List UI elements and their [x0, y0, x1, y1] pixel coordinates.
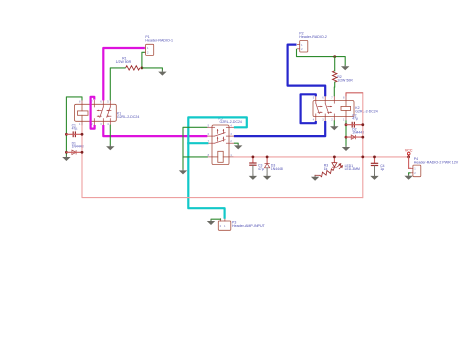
svg-text:LED-3MM: LED-3MM: [345, 167, 360, 171]
wire K3 pin4/pin7 to P3 (cyan): [188, 117, 247, 218]
wire VCC right vertical rail (red): [362, 93, 364, 198]
junction D1 right: [81, 151, 84, 154]
ground C4: [370, 174, 378, 180]
connector P4 Header-RADIO-2-PWR-12V: [411, 157, 459, 177]
led LED1 LED-3MM: [332, 157, 360, 171]
wire P4 pin2 to ground (green): [409, 173, 411, 176]
wire VCC rail horizontal (red): [234, 156, 409, 158]
wire K2 coil pin1 rail to ground (green): [345, 121, 347, 147]
junction D1 left: [65, 151, 68, 154]
svg-text:1µ: 1µ: [380, 167, 384, 171]
capacitor C3 47u: [249, 157, 264, 176]
diode D2 1N4448: [351, 127, 364, 139]
relay K2 G2RL-2-DC24: [313, 96, 378, 121]
svg-text:G2RL-2-DC24: G2RL-2-DC24: [117, 115, 139, 119]
svg-text:1/2W 50R: 1/2W 50R: [116, 60, 132, 64]
ground P4: [404, 174, 412, 180]
wire K1 pin3 to K3 pin6 (magenta): [103, 125, 207, 136]
ground K3 rail: [179, 169, 187, 175]
ground K1 coil: [62, 155, 70, 161]
wire P2 pin2 to R2 and ground (green): [297, 49, 346, 66]
wire bottom rail (red): [82, 125, 363, 197]
wire K2 pin3 to K3 pin3 (blue): [234, 121, 325, 136]
wire P2 pin1 to K2 pin6 (blue): [288, 45, 326, 97]
relay K3 G2RL-2-DC24: [207, 116, 242, 164]
ground P3: [207, 219, 215, 225]
wire C1 row (red): [66, 133, 82, 135]
resistor R3 1k: [315, 164, 334, 177]
wire D2 row (red): [346, 136, 363, 138]
svg-text:Header-RADIO-2: Header-RADIO-2: [299, 35, 327, 39]
ground K2 pin2: [330, 125, 338, 131]
diode D1 1N4448: [72, 141, 84, 154]
resistor R2 1/2W 50R: [333, 71, 354, 83]
resistor R1 1/2W 50R: [116, 57, 140, 71]
svg-text:G2RL-2-DC24: G2RL-2-DC24: [220, 120, 242, 124]
wire K1 coil pin8 hook to gnd rail (green): [66, 97, 82, 157]
relay K1 G2RL-2-DC24: [75, 100, 140, 126]
wire K2 bracket pin5 to pin4 (blue): [301, 94, 316, 123]
junction R2 top: [333, 55, 336, 58]
junction C1 right: [81, 133, 84, 136]
power VCC: [405, 149, 413, 157]
wire K1 pin4 to ground (green): [109, 125, 111, 146]
svg-text:47µ: 47µ: [258, 167, 264, 171]
ground C3: [249, 174, 257, 180]
ground K2 coil: [342, 145, 350, 151]
wire K3 pin5/pin8 gnd rail (green): [183, 127, 207, 170]
wire VCC to P4 pin1 (red): [408, 157, 410, 168]
junction VCC rail crossings: [252, 156, 255, 159]
svg-text:1/2W 50R: 1/2W 50R: [337, 78, 353, 82]
wire D1 row (red): [66, 151, 82, 153]
wire P3 pin2 to ground (green): [211, 219, 221, 221]
junction C2 left: [345, 123, 348, 126]
svg-text:Header-AMP-INPUT: Header-AMP-INPUT: [232, 224, 266, 228]
ground D3: [263, 174, 271, 180]
ground K1 pin4: [106, 145, 114, 151]
capacitor C4 1u: [371, 157, 385, 176]
wire K2 pin2 to ground (green): [333, 121, 335, 126]
wire R1 right to ground (green): [142, 68, 163, 72]
diode D3 1N4448: [265, 157, 283, 176]
connector P3 Header-AMP-INPUT: [218, 219, 265, 231]
junction P1/R1: [141, 67, 144, 70]
wire K3 pin2 to ground (green): [234, 143, 238, 145]
svg-text:G2RL-2-DC24: G2RL-2-DC24: [355, 109, 377, 113]
ground K3 pin2: [234, 144, 242, 150]
capacitor C1 47u: [72, 123, 78, 137]
svg-text:1N4448: 1N4448: [271, 167, 283, 171]
junction C2 right: [361, 123, 364, 126]
connector P2 Header-RADIO-2: [297, 32, 327, 52]
svg-text:Header-RADIO-1: Header-RADIO-1: [145, 38, 173, 42]
wire P1 pin1 to K1 pin6 (magenta): [103, 48, 145, 100]
ground R1: [158, 70, 166, 76]
junction D2 left: [345, 136, 348, 139]
wire C2 row (red): [346, 124, 363, 126]
ground R3: [311, 175, 319, 181]
wire R1 left to K1 pin5 (green): [110, 68, 125, 101]
wire P1 pin2 down (green): [142, 52, 145, 68]
wire K2 coil pin8 hook (red): [346, 93, 363, 96]
svg-text:47µ: 47µ: [72, 127, 78, 131]
wire R2 leads (green): [334, 57, 336, 71]
junction C1 left: [65, 133, 68, 136]
connector P1 Header-RADIO-1: [143, 35, 173, 55]
wire cyan stub to K3 pin7: [188, 142, 207, 144]
capacitor C2 47u: [352, 113, 358, 127]
svg-text:Header-RADIO-2 PWR 12V: Header-RADIO-2 PWR 12V: [414, 161, 459, 165]
svg-text:47µ: 47µ: [352, 117, 358, 121]
junction D2 right: [361, 136, 364, 139]
ground P2: [341, 65, 349, 71]
wire K1 bracket pin7 to pin2 (magenta): [91, 97, 95, 129]
